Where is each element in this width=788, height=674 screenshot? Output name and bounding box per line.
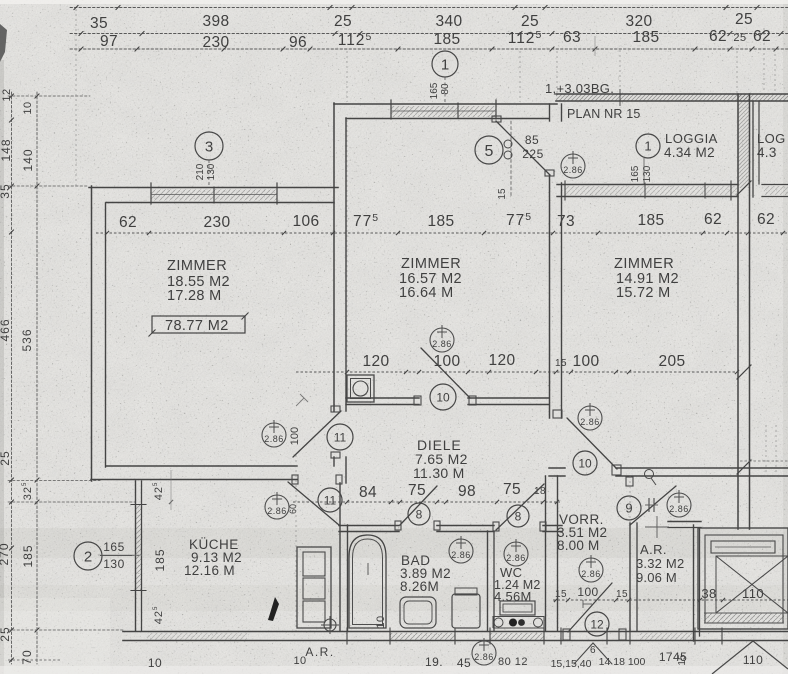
wall: vorr/ar north <box>549 467 565 469</box>
wall: ar left <box>629 523 631 631</box>
svg-text:45: 45 <box>457 656 471 670</box>
svg-text:25: 25 <box>0 450 12 465</box>
svg-text:10: 10 <box>148 656 162 670</box>
wall: bad/wc divider <box>487 531 489 631</box>
svg-text:LOGGIA: LOGGIA <box>665 131 718 146</box>
svg-text:98: 98 <box>458 483 476 500</box>
svg-text:100: 100 <box>289 427 301 445</box>
svg-text:1: 1 <box>644 139 651 154</box>
svg-text:ZIMMER: ZIMMER <box>167 258 227 274</box>
fixture: bidet <box>452 594 480 628</box>
svg-text:8.00 M: 8.00 M <box>557 538 599 553</box>
svg-text:185: 185 <box>427 213 454 230</box>
door D11a (room1/diele) <box>293 411 341 457</box>
svg-text:100: 100 <box>577 585 598 599</box>
svg-text:110: 110 <box>743 653 763 667</box>
faint room diagonal ticks <box>300 394 308 402</box>
bottom dim text row <box>8 659 60 661</box>
svg-text:9.06 M: 9.06 M <box>636 570 677 585</box>
svg-text:15: 15 <box>555 589 567 600</box>
svg-text:25: 25 <box>521 13 539 30</box>
interior dim row y233 <box>96 232 788 234</box>
svg-text:80 12: 80 12 <box>498 656 528 668</box>
svg-text:9: 9 <box>625 501 632 516</box>
ref circle 1 loggia <box>636 134 660 158</box>
ref circle 11 diele <box>327 424 353 450</box>
svg-text:38: 38 <box>701 586 716 601</box>
svg-text:230: 230 <box>203 214 230 231</box>
wall: wc/vorr divider <box>545 476 547 631</box>
svg-text:19.: 19. <box>425 655 443 669</box>
fixture: bathtub <box>349 535 386 628</box>
svg-text:10: 10 <box>375 615 387 628</box>
svg-text:130: 130 <box>206 163 217 180</box>
fixture: wc toilet <box>500 601 535 615</box>
svg-text:96: 96 <box>289 34 307 51</box>
svg-text:130: 130 <box>103 557 125 571</box>
scan smudge bands <box>0 528 788 558</box>
svg-text:185: 185 <box>632 29 659 46</box>
svg-text:73: 73 <box>557 213 575 230</box>
fixture: entrance arrow mark <box>268 597 279 621</box>
svg-text:120: 120 <box>362 353 389 370</box>
svg-text:100: 100 <box>572 353 599 370</box>
svg-text:A.R.: A.R. <box>305 645 334 659</box>
wall: kitchen west window wall <box>135 481 137 631</box>
svg-text:LOG: LOG <box>757 131 786 146</box>
left dimension chain lines <box>11 92 13 664</box>
svg-text:185: 185 <box>637 212 664 229</box>
window W2 room2 top <box>391 106 496 117</box>
ref circle 8 bad <box>408 503 430 525</box>
svg-text:25: 25 <box>735 11 753 28</box>
svg-text:2.86: 2.86 <box>474 652 494 662</box>
svg-text:225: 225 <box>522 147 544 161</box>
fixture: lift shaft box <box>698 528 788 629</box>
svg-text:62: 62 <box>757 211 775 228</box>
fixture: bad washbasin <box>400 597 436 628</box>
svg-text:1,+3.03BG.: 1,+3.03BG. <box>545 81 614 96</box>
height markers 2.86 <box>561 151 585 178</box>
svg-text:340: 340 <box>435 13 462 30</box>
top dimension line row 2 <box>70 33 788 35</box>
wall: loggia parapet top <box>556 93 788 95</box>
svg-text:70: 70 <box>20 649 34 664</box>
svg-text:10: 10 <box>22 101 34 114</box>
svg-text:62: 62 <box>704 211 722 228</box>
total area box <box>152 316 245 333</box>
svg-text:15,15,40: 15,15,40 <box>551 658 592 670</box>
svg-text:62: 62 <box>119 214 137 231</box>
ref circle 10 diele <box>430 384 456 410</box>
ref circle 8 wc <box>507 505 529 527</box>
svg-text:80: 80 <box>440 83 451 95</box>
svg-text:320: 320 <box>625 13 652 30</box>
svg-text:A.R.: A.R. <box>640 542 667 557</box>
svg-text:62: 62 <box>709 28 727 45</box>
door D11b (kitchen) <box>288 482 339 525</box>
window W3: loggia sill / room3 top <box>557 184 738 186</box>
svg-text:ZIMMER: ZIMMER <box>401 256 461 272</box>
svg-text:8.26M: 8.26M <box>400 579 439 594</box>
svg-text:2: 2 <box>84 548 92 565</box>
svg-text:210: 210 <box>195 163 206 180</box>
svg-text:10: 10 <box>578 456 592 470</box>
wall: ar right <box>693 525 695 641</box>
svg-text:4.34 M2: 4.34 M2 <box>664 145 715 160</box>
svg-text:165: 165 <box>103 540 125 554</box>
wall: building south heavy <box>123 631 788 633</box>
svg-text:5: 5 <box>485 143 494 160</box>
svg-text:17.28 M: 17.28 M <box>167 288 222 304</box>
svg-text:230: 230 <box>202 34 229 51</box>
ref circle 3 <box>195 132 223 160</box>
door D12 (entrance, south wall) <box>568 583 612 632</box>
top dimension line row 3 <box>70 48 788 50</box>
svg-text:2.86: 2.86 <box>580 417 600 427</box>
fixture: kitchen unit <box>297 547 331 628</box>
svg-text:2.86: 2.86 <box>581 569 601 579</box>
window W1 room1 top <box>151 190 277 201</box>
door D8a (bad) <box>400 486 437 525</box>
svg-text:11.30 M: 11.30 M <box>413 465 465 481</box>
door-closer symbol near D9 <box>645 470 654 479</box>
svg-text:536: 536 <box>20 328 34 351</box>
svg-text:12: 12 <box>590 617 604 631</box>
svg-text:140: 140 <box>21 148 35 171</box>
svg-text:62: 62 <box>753 28 771 45</box>
svg-text:100: 100 <box>433 353 460 370</box>
faint extension verticals <box>75 9 77 186</box>
svg-text:25: 25 <box>733 32 746 44</box>
svg-text:15: 15 <box>616 589 628 600</box>
second loggia (right edge) <box>752 101 754 197</box>
svg-text:8: 8 <box>515 509 522 523</box>
svg-text:15: 15 <box>497 188 508 200</box>
svg-text:12: 12 <box>1 88 13 101</box>
svg-text:75: 75 <box>503 481 521 498</box>
svg-text:PLAN NR 15: PLAN NR 15 <box>567 107 641 121</box>
svg-text:3.32 M2: 3.32 M2 <box>636 556 684 571</box>
interior dim row y502 <box>293 501 560 503</box>
interior dim row y600 <box>553 599 788 601</box>
door D5 (room2 to loggia) <box>496 121 550 175</box>
svg-text:2.86: 2.86 <box>267 506 287 516</box>
svg-text:97: 97 <box>100 33 118 50</box>
svg-text:165: 165 <box>630 165 641 182</box>
ref circle 11 kitchen <box>318 488 342 512</box>
door D10a (room2/diele) <box>421 348 470 398</box>
top dimension line row 1 <box>70 7 788 9</box>
door D10b (room3) <box>567 418 617 469</box>
svg-text:270: 270 <box>0 542 11 565</box>
ref circle 1 top <box>432 51 458 77</box>
wall: room1/room2 divider vertical <box>333 103 335 411</box>
wall: ar top stub <box>668 521 701 523</box>
wall: room2 top <box>334 103 557 105</box>
svg-text:2.86: 2.86 <box>451 550 471 560</box>
svg-text:16.64 M: 16.64 M <box>399 285 454 301</box>
svg-text:10: 10 <box>436 390 450 404</box>
fixture: kitchen drain symbol <box>324 619 336 631</box>
svg-text:84: 84 <box>359 484 377 501</box>
svg-text:4.3: 4.3 <box>757 145 777 160</box>
svg-text:398: 398 <box>202 13 229 30</box>
wall: diele north (room2 south) <box>346 397 419 399</box>
svg-text:35: 35 <box>90 15 108 32</box>
svg-text:25: 25 <box>0 626 12 641</box>
svg-text:15.72 M: 15.72 M <box>616 285 671 301</box>
svg-text:205: 205 <box>658 353 685 370</box>
svg-text:85: 85 <box>525 133 539 147</box>
svg-text:15: 15 <box>677 654 688 666</box>
svg-text:106: 106 <box>292 213 319 230</box>
svg-text:185: 185 <box>153 548 167 571</box>
wall: room1 top <box>89 187 338 189</box>
ref circle 9 <box>617 496 641 520</box>
svg-text:2.86: 2.86 <box>669 504 689 514</box>
svg-text:3: 3 <box>205 138 213 155</box>
wall: room1 left exterior <box>91 186 93 481</box>
svg-text:78.77 M2: 78.77 M2 <box>165 318 229 334</box>
wall: room2/room3 divider <box>549 104 551 121</box>
svg-text:63: 63 <box>563 29 581 46</box>
window W4 kitchen west <box>136 505 141 590</box>
ref circle 12 entrance <box>585 612 609 636</box>
wall: loggia right / long east wall <box>737 94 739 529</box>
svg-text:60: 60 <box>288 504 298 514</box>
wall: bath/wc top <box>339 525 399 527</box>
door D9 (ar) <box>630 486 676 525</box>
svg-text:11: 11 <box>334 430 347 444</box>
svg-text:2.86: 2.86 <box>506 553 526 563</box>
svg-text:12.16 M: 12.16 M <box>184 563 235 578</box>
fixture: shaft/washer box in diele <box>347 375 374 402</box>
roof gable lines bottom right <box>712 641 753 674</box>
svg-text:2.86: 2.86 <box>264 434 284 444</box>
small fitting near D12 <box>583 603 592 605</box>
svg-text:165: 165 <box>429 82 440 99</box>
svg-text:25: 25 <box>334 13 352 30</box>
ref circle 2 kitchen <box>74 542 102 570</box>
wall: kitchen/bath divider <box>339 483 341 631</box>
svg-text:8: 8 <box>416 507 423 521</box>
ref circle 10 room3 <box>573 451 597 475</box>
svg-text:466: 466 <box>0 318 12 341</box>
svg-text:11: 11 <box>324 493 337 507</box>
interior dim row y372 <box>296 371 737 373</box>
svg-text:110: 110 <box>742 586 764 601</box>
svg-text:2.86: 2.86 <box>563 165 583 175</box>
left chain extension stubs <box>8 95 90 97</box>
svg-text:120: 120 <box>488 352 515 369</box>
svg-text:2.86: 2.86 <box>432 339 452 349</box>
svg-text:ZIMMER: ZIMMER <box>614 256 674 272</box>
wall: room1 bottom / kitchen top <box>106 465 297 467</box>
ref circle 5 <box>475 136 503 164</box>
svg-text:1: 1 <box>441 56 449 73</box>
svg-text:6: 6 <box>590 645 596 656</box>
svg-text:185: 185 <box>21 544 35 567</box>
svg-text:148: 148 <box>0 138 13 161</box>
door D8b (wc) <box>496 484 544 530</box>
svg-text:75: 75 <box>408 482 426 499</box>
svg-text:185: 185 <box>433 31 460 48</box>
